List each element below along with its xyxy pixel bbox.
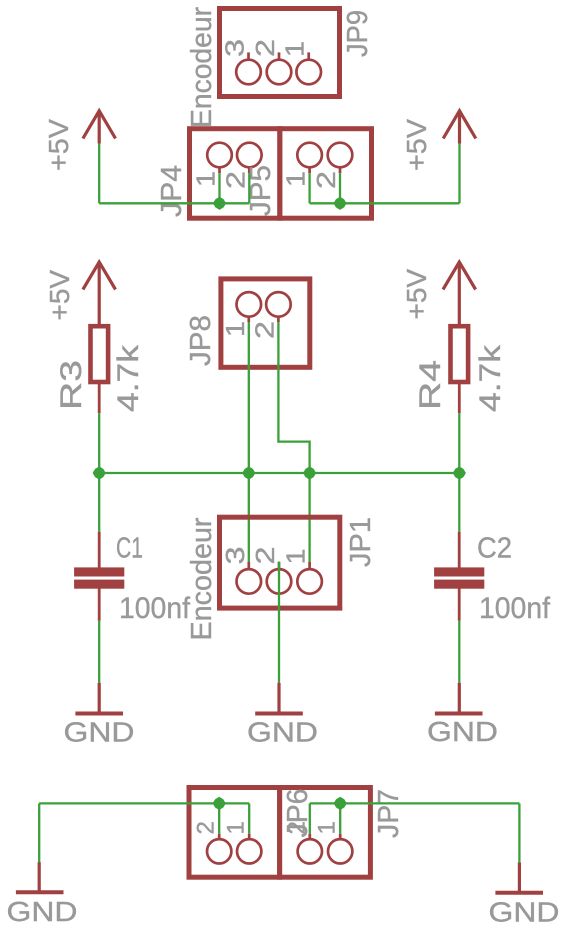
- connector JP1 box: [220, 517, 340, 608]
- JP9 pin 1: [296, 52, 321, 84]
- capacitor C1 plates: [74, 567, 124, 588]
- JP6 pin 2: [207, 834, 231, 864]
- svg-text:JP1: JP1: [345, 517, 377, 567]
- svg-text:1: 1: [191, 171, 221, 187]
- capacitor C2 plates: [434, 567, 484, 588]
- capacitor C1 top lead: [98, 532, 101, 568]
- svg-text:+5V: +5V: [43, 119, 74, 171]
- wire R3 to rail: [98, 413, 100, 473]
- wire rail to JP1 pin3: [248, 473, 250, 562]
- +5V supply symbol top right: [443, 111, 476, 144]
- svg-text:1: 1: [280, 41, 310, 57]
- wire top right rail: [310, 202, 460, 204]
- svg-text:4.7k: 4.7k: [474, 344, 507, 412]
- svg-text:100nf: 100nf: [479, 592, 551, 625]
- wire rail to C1: [98, 473, 100, 532]
- junction JP4: [213, 197, 226, 210]
- wire rail to C2: [458, 473, 460, 532]
- JP1 pin 2: [267, 562, 292, 594]
- JP7 pin 1: [328, 834, 352, 864]
- JP8 pin 1: [237, 292, 262, 322]
- wire bottom right drop: [518, 803, 520, 863]
- svg-text:R3: R3: [55, 360, 88, 410]
- wire JP7 pin2 rise: [309, 803, 311, 833]
- svg-text:GND: GND: [427, 716, 498, 747]
- wire JP8 pin1 down: [248, 322, 250, 473]
- wire JP1 pin2 to ground: [278, 562, 280, 684]
- svg-text:R4: R4: [414, 360, 447, 410]
- wire R4 to rail: [458, 413, 460, 473]
- wire C2 to ground: [458, 621, 460, 683]
- ground symbol mid center: [255, 683, 303, 714]
- svg-text:2: 2: [311, 171, 341, 189]
- svg-text:Encodeur: Encodeur: [186, 517, 218, 640]
- JP1 pin 3: [237, 562, 262, 594]
- capacitor C2 top lead: [458, 532, 461, 568]
- wire bottom left drop: [38, 803, 40, 862]
- +5V supply symbol top left: [83, 111, 116, 144]
- svg-text:1: 1: [223, 821, 250, 834]
- JP8 pin 2: [266, 292, 291, 322]
- wire JP5 pin2 drop: [339, 173, 341, 203]
- wire JP4 pin1 drop: [218, 173, 220, 203]
- wire JP5 pin1 drop: [308, 173, 310, 203]
- svg-text:2: 2: [250, 547, 280, 565]
- wire top left rail: [99, 202, 249, 204]
- +5V supply symbol mid left: [83, 262, 116, 326]
- svg-text:JP7: JP7: [373, 789, 405, 838]
- svg-text:C1: C1: [116, 533, 143, 565]
- wire JP8 pin2 jog: [278, 322, 309, 473]
- wire JP7 pin1 rise: [339, 803, 341, 833]
- svg-text:2: 2: [249, 321, 279, 339]
- resistor R4 body: [451, 326, 469, 382]
- JP9 pin 3: [236, 52, 261, 84]
- connector JP4 box: [190, 129, 280, 219]
- wire rail to JP1 pin1: [308, 473, 310, 562]
- resistor R4 bottom lead: [458, 382, 461, 413]
- resistor R3 bottom lead: [98, 382, 101, 413]
- svg-text:GND: GND: [7, 896, 78, 927]
- junction JP7: [334, 797, 347, 810]
- JP1 pin 1: [297, 562, 322, 594]
- connector JP6 box: [189, 788, 280, 878]
- ground symbol bottom right: [495, 863, 543, 893]
- wire +5V right drop: [458, 144, 460, 204]
- junction JP6: [213, 797, 226, 810]
- wire JP6 pin1 rise: [248, 803, 250, 833]
- svg-text:JP9: JP9: [342, 10, 374, 57]
- +5V supply symbol mid right: [443, 262, 476, 326]
- svg-text:2: 2: [250, 39, 280, 57]
- wire JP4 pin2 drop: [248, 173, 250, 203]
- wire JP6 pin2 rise: [218, 803, 220, 833]
- ground symbol mid right: [435, 683, 483, 714]
- JP6 pin 1: [237, 834, 261, 864]
- junction JP5: [333, 197, 346, 210]
- svg-text:100nf: 100nf: [119, 592, 191, 625]
- svg-text:GND: GND: [64, 717, 135, 748]
- svg-text:2: 2: [193, 821, 220, 834]
- svg-text:C2: C2: [477, 533, 512, 565]
- junction rail R3: [93, 466, 106, 479]
- svg-text:GND: GND: [247, 717, 318, 748]
- svg-text:3: 3: [220, 39, 250, 57]
- JP4 pin 2: [237, 143, 262, 174]
- svg-text:+5V: +5V: [401, 119, 432, 171]
- wire middle rail: [99, 472, 459, 474]
- svg-text:GND: GND: [489, 897, 560, 928]
- junction rail JP1 pin3: [242, 466, 255, 479]
- connector JP7 box: [280, 788, 371, 878]
- JP9 pin 2: [267, 52, 292, 84]
- JP4 pin 1: [207, 143, 232, 174]
- connector JP8 box: [221, 279, 310, 367]
- svg-text:JP4: JP4: [156, 165, 188, 217]
- svg-text:3: 3: [220, 547, 250, 565]
- wire +5V left drop: [98, 144, 100, 204]
- ground symbol bottom left: [16, 862, 64, 892]
- svg-text:1: 1: [314, 821, 341, 834]
- svg-text:JP8: JP8: [185, 315, 217, 366]
- svg-text:1: 1: [220, 321, 250, 337]
- ground symbol mid left: [75, 683, 123, 714]
- JP5 pin 2: [328, 143, 353, 174]
- capacitor C2 bottom lead: [458, 588, 461, 621]
- svg-text:1: 1: [281, 171, 311, 187]
- JP7 pin 2: [298, 834, 322, 864]
- capacitor C1 bottom lead: [98, 588, 101, 621]
- wire bottom right rail: [310, 802, 520, 804]
- connector JP5 box: [280, 129, 372, 219]
- wire bottom left rail: [39, 802, 249, 804]
- svg-text:Encodeur: Encodeur: [186, 7, 218, 128]
- svg-text:+5V: +5V: [401, 269, 432, 320]
- junction rail JP1 pin1: [303, 466, 316, 479]
- svg-text:1: 1: [281, 549, 311, 565]
- svg-text:+5V: +5V: [44, 270, 75, 321]
- JP5 pin 1: [297, 143, 322, 174]
- resistor R3 body: [91, 326, 109, 382]
- junction rail R4: [453, 466, 466, 479]
- connector JP9 box: [220, 9, 340, 97]
- wire C1 to ground: [98, 621, 100, 683]
- svg-text:4.7k: 4.7k: [112, 344, 145, 412]
